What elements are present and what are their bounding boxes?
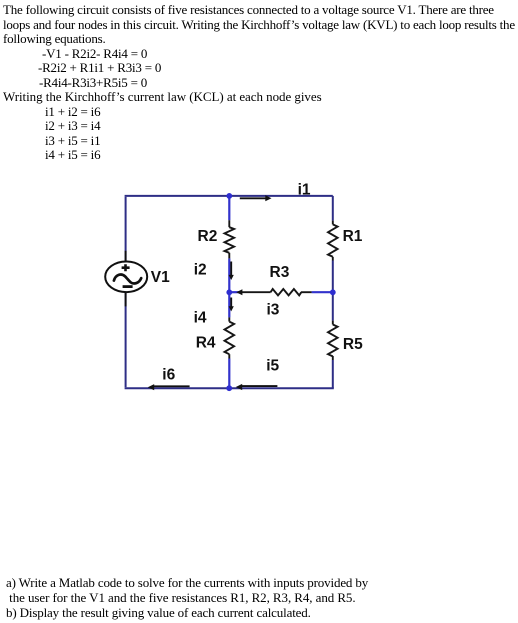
svg-text:R4: R4 xyxy=(196,334,216,351)
svg-text:i1: i1 xyxy=(298,181,311,198)
svg-text:i6: i6 xyxy=(162,366,175,383)
svg-text:i5: i5 xyxy=(266,358,279,375)
svg-text:R2: R2 xyxy=(198,228,218,245)
svg-text:R1: R1 xyxy=(343,228,363,245)
svg-text:i2: i2 xyxy=(194,262,207,279)
svg-text:R5: R5 xyxy=(343,336,363,353)
svg-text:i4: i4 xyxy=(194,310,207,327)
svg-text:V1: V1 xyxy=(151,269,170,286)
svg-text:R3: R3 xyxy=(270,264,290,281)
svg-text:i3: i3 xyxy=(267,302,280,319)
